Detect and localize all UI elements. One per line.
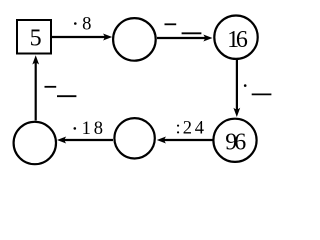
label dot of "· 8"	[74, 22, 77, 25]
label dot of "· __"	[244, 84, 247, 87]
box start node "5"	[17, 20, 51, 54]
node circle3 (empty, bottom left)	[14, 122, 56, 164]
label minus sign	[45, 86, 57, 88]
wire arrow A5 (circle2 -> circle3), label "· 18"	[57, 137, 113, 144]
wire arrow A1 (5 -> circle1), label "· 8"	[52, 34, 112, 41]
label blank line	[252, 93, 272, 95]
label minus sign	[165, 23, 177, 25]
label blank line	[182, 32, 202, 34]
svg-text::: :	[176, 119, 181, 139]
svg-text:16: 16	[227, 27, 248, 53]
svg-text:5: 5	[30, 25, 42, 51]
wire arrow A4 (96 -> circle2), label ": 24"	[157, 137, 213, 144]
node circle1 (empty, top middle)	[113, 18, 156, 61]
wire arrow A2 (circle1 -> 16), label "− __"	[157, 35, 213, 42]
label blank line	[57, 95, 76, 97]
node circle "96"	[213, 119, 256, 162]
node circle2 (empty, bottom middle)	[114, 118, 154, 158]
svg-text:8: 8	[82, 14, 91, 35]
svg-text:96: 96	[225, 130, 246, 156]
wire arrow A6 (circle3 -> 5), label "− __"	[32, 55, 39, 120]
wire arrow A3 (16 -> 96), label "· __"	[233, 60, 240, 117]
node circle "16"	[214, 16, 257, 59]
label dot of "· 18"	[74, 127, 77, 130]
